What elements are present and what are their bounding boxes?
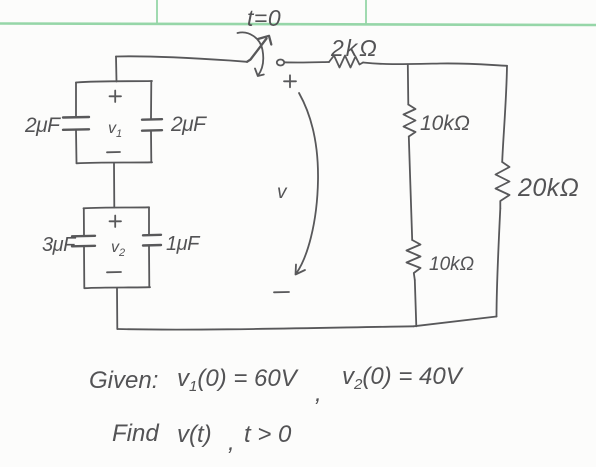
wire 2k resistor to right corner — [363, 63, 507, 66]
node v1 box top wire — [76, 81, 152, 83]
minus sign v2 — [107, 271, 121, 273]
svg-text:10kΩ: 10kΩ — [429, 254, 474, 275]
svg-text:v: v — [277, 182, 288, 203]
plus sign v1 — [110, 91, 122, 103]
wire v1 right side lower — [150, 131, 152, 163]
plus sign v2 — [110, 216, 122, 228]
wire right branch lower — [497, 209, 501, 317]
svg-text:,: , — [315, 380, 322, 407]
wire v2 left side lower — [83, 246, 85, 287]
resistor R4 20k zigzag — [496, 162, 510, 209]
svg-text:10kΩ: 10kΩ — [420, 112, 470, 135]
svg-text:2μF: 2μF — [170, 113, 207, 136]
capacitor C4 1uF bottom plate — [143, 244, 161, 247]
svg-text:2μF: 2μF — [24, 114, 61, 137]
capacitor C-left 2uF bottom plate — [63, 128, 89, 131]
wire middle branch between resistors — [409, 137, 412, 241]
svg-text:v1: v1 — [108, 120, 122, 140]
capacitor C-right 2uF bottom plate — [142, 129, 162, 132]
green rule line — [0, 24, 596, 26]
wire bottom rail right slanted segment — [414, 317, 497, 327]
plus sign of v — [284, 75, 296, 87]
svg-text:v1(0) = 60V: v1(0) = 60V — [177, 365, 299, 395]
wire right branch upper — [502, 66, 507, 162]
wire stub top-left down to v1 box — [115, 57, 118, 82]
svg-text:t=0: t=0 — [247, 5, 281, 31]
svg-text:Find: Find — [112, 420, 159, 447]
wire v1 left side lower — [75, 130, 78, 163]
svg-text:Given:: Given: — [89, 367, 158, 394]
switch motion arc — [238, 32, 264, 75]
svg-text:3μF: 3μF — [42, 234, 77, 256]
wire v1 left side upper — [75, 83, 77, 118]
wire v1 right side upper — [150, 81, 152, 119]
wire bottom rail — [117, 326, 413, 329]
wire terminal to 2k resistor — [285, 61, 330, 64]
wire v2 right side lower — [148, 246, 150, 288]
svg-text:1μF: 1μF — [166, 233, 201, 255]
wire top from left block to switch — [116, 56, 247, 61]
wire v2 left side upper — [83, 208, 85, 236]
svg-text:,: , — [228, 429, 235, 456]
resistor R3 10k zigzag — [407, 240, 421, 280]
switch blade SW1 — [247, 39, 267, 62]
wire middle branch lower — [415, 280, 417, 326]
svg-text:20kΩ: 20kΩ — [517, 174, 579, 202]
svg-text:v2(0) = 40V: v2(0) = 40V — [342, 363, 464, 393]
switch motion arc arrowhead — [255, 69, 264, 77]
svg-text:t > 0: t > 0 — [244, 421, 292, 448]
capacitor C4 1uF top plate — [143, 234, 161, 237]
switch blade arrowhead — [258, 36, 271, 45]
capacitor C3 3uF bottom plate — [72, 245, 95, 248]
resistor R1 2k zigzag — [329, 56, 363, 68]
wire v2 box bottom — [84, 287, 150, 288]
wire stub v2 to bottom rail — [116, 288, 118, 329]
green tick right — [365, 0, 367, 24]
resistor R2 10k zigzag — [404, 105, 416, 137]
capacitor C-left 2uF top plate — [63, 116, 89, 119]
svg-text:2kΩ: 2kΩ — [330, 35, 379, 61]
wire v2 box top — [84, 207, 150, 208]
green tick left — [156, 0, 158, 24]
capacitor C3 3uF top plate — [72, 235, 95, 238]
v arrow arrowhead — [296, 265, 306, 275]
wire v1 box bottom — [77, 162, 153, 163]
svg-text:v(t): v(t) — [177, 421, 212, 448]
wire stub between v1 and v2 — [113, 163, 115, 207]
minus sign v1 — [107, 151, 120, 153]
wire v2 right side upper — [148, 207, 150, 235]
capacitor C-right 2uF top plate — [142, 118, 162, 121]
v voltage arrow arc — [297, 93, 319, 273]
svg-text:v2: v2 — [111, 239, 125, 259]
switch terminal circle — [277, 60, 284, 66]
wire middle branch upper — [407, 64, 410, 104]
minus sign of v — [274, 291, 289, 293]
